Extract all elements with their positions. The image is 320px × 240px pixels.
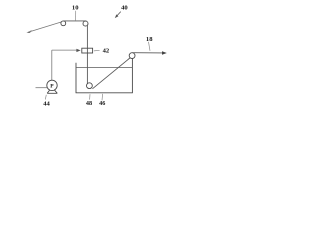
leader for 18 — [149, 42, 151, 51]
wire incoming web diagonal — [28, 22, 63, 33]
wire horizontal web between rollers — [63, 20, 87, 22]
svg-text:46: 46 — [99, 100, 105, 107]
svg-text:40: 40 — [121, 5, 128, 12]
roller R3 top-right — [129, 53, 135, 59]
leader for 42 — [94, 49, 100, 52]
wire pump inlet stub — [36, 87, 48, 89]
leader for 10 — [75, 11, 77, 21]
pump P44 circle — [47, 80, 57, 90]
arrowhead into die — [76, 49, 80, 52]
leader for 48 — [89, 94, 91, 99]
die U42 box — [82, 48, 93, 53]
leader for 44 — [45, 95, 46, 100]
tank bottom — [76, 92, 133, 94]
arrowhead outgoing web — [162, 51, 167, 55]
wire outgoing web to arrow 18 — [133, 52, 164, 54]
tank liquid level line — [76, 67, 132, 69]
roller R2 — [83, 21, 88, 26]
svg-text:42: 42 — [103, 47, 110, 54]
pump base trapezoid — [47, 90, 57, 93]
roller R1 top-left — [61, 21, 66, 26]
wire web diagonal in tank — [92, 58, 130, 89]
svg-text:P: P — [50, 84, 54, 90]
leader for 46 — [101, 94, 104, 100]
svg-text:44: 44 — [43, 100, 50, 107]
wire web vertical from R2 down into tank — [86, 25, 88, 85]
wire feed pipe vertical from pump — [51, 50, 53, 80]
svg-text:18: 18 — [146, 36, 153, 43]
tank T46 left wall — [75, 63, 77, 93]
arrow for 40 pointing down-left — [117, 12, 121, 16]
tank right wall — [131, 59, 133, 93]
svg-text:10: 10 — [72, 4, 79, 11]
svg-text:48: 48 — [86, 100, 92, 107]
submerged roller R48 — [87, 83, 93, 89]
arrowhead at web start — [26, 30, 31, 33]
wire feed pipe horizontal to die — [52, 49, 77, 51]
